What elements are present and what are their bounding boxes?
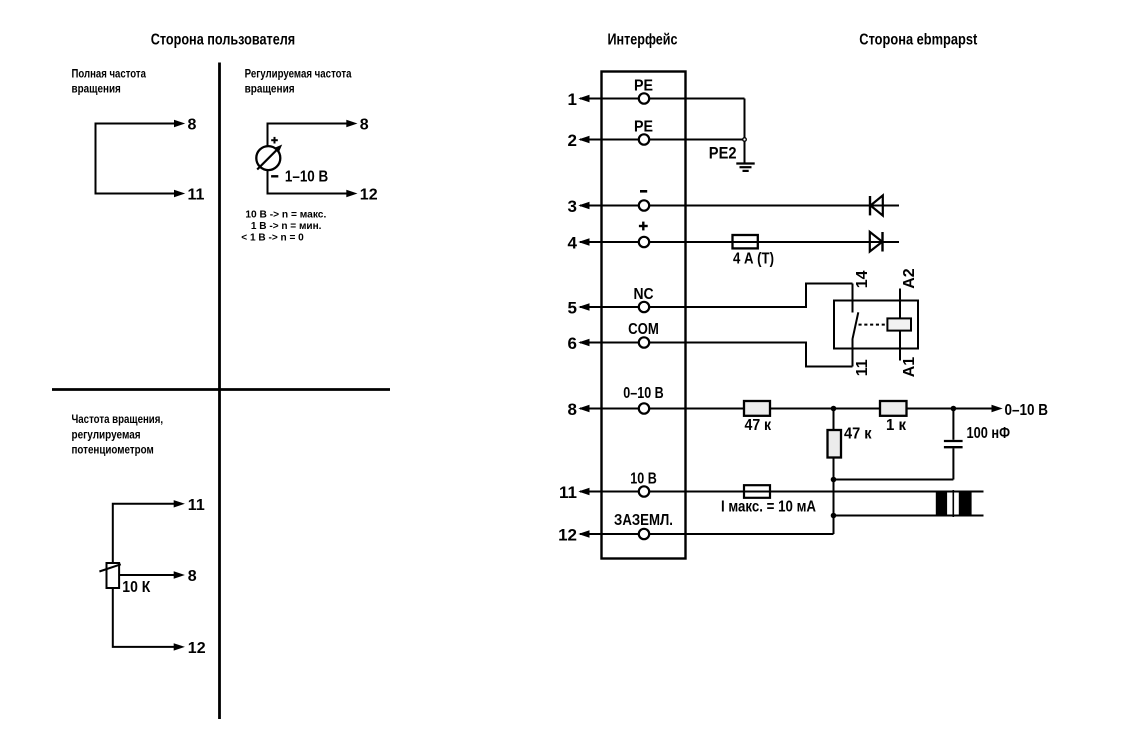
transformer isolation bars: [936, 491, 947, 517]
diode D2 row 4: [870, 232, 883, 252]
svg-text:Полная частота: Полная частота: [72, 66, 147, 80]
wire: full speed loop: [96, 124, 177, 194]
wire: source to 12: [268, 170, 349, 193]
divider horizontal: [52, 388, 390, 391]
svg-text:PE: PE: [634, 119, 653, 136]
capacitor C1 100nF: [952, 409, 954, 440]
svg-text:8: 8: [568, 400, 577, 419]
node 8 (pot): [174, 571, 185, 578]
wire: wiper to 8: [120, 574, 177, 576]
svg-text:5: 5: [568, 299, 577, 318]
terminal 2: [578, 136, 589, 143]
terminal 4: [578, 238, 589, 245]
relay contact stub 11: [852, 339, 854, 367]
wiper line: [99, 564, 120, 571]
junction node row8/bus: [831, 406, 837, 412]
voltage source V1: [256, 146, 280, 170]
svg-text:PE: PE: [634, 77, 653, 94]
terminal 6: [578, 339, 589, 346]
svg-text:Интерфейс: Интерфейс: [608, 32, 678, 49]
svg-text:12: 12: [558, 526, 577, 545]
node 11 (full speed): [174, 190, 185, 197]
wire row 11: [580, 491, 984, 493]
svg-text:3: 3: [568, 197, 577, 216]
svg-text:1 к: 1 к: [886, 417, 907, 434]
svg-text:10 В -> n = макс.: 10 В -> n = макс.: [245, 209, 326, 220]
svg-text:2: 2: [568, 131, 577, 150]
svg-text:Регулируемая частота: Регулируемая частота: [245, 66, 352, 80]
svg-text:100 нФ: 100 нФ: [967, 425, 1011, 442]
relay coil: [887, 318, 911, 330]
svg-text:COM: COM: [628, 321, 659, 338]
svg-text:1 В -> n = мин.: 1 В -> n = мин.: [251, 221, 322, 232]
junction PE2: [743, 138, 747, 142]
terminal 5: [578, 303, 589, 310]
fuse F1 4A: [733, 235, 758, 248]
wire row 4 plus: [580, 241, 899, 243]
svg-text:8: 8: [188, 117, 197, 134]
svg-text:I макс. = 10 мА: I макс. = 10 мА: [721, 499, 816, 516]
terminal 12: [578, 530, 589, 537]
node 12 (variable): [346, 190, 357, 197]
wire isolation lower: [834, 515, 984, 517]
relay blade: [853, 312, 859, 338]
terminal 8: [578, 405, 589, 412]
svg-text:A1: A1: [901, 357, 918, 378]
svg-text:6: 6: [568, 334, 577, 353]
node 11 (pot): [174, 500, 185, 507]
resistor R1 47k: [744, 401, 770, 416]
svg-text:10 К: 10 К: [122, 579, 150, 596]
relay contact stub 14: [852, 284, 854, 313]
wire bus x833 row8 to row12: [833, 409, 835, 535]
wiper arrow of source: [257, 149, 278, 170]
wire cap bottom to bus: [834, 479, 954, 481]
terminal 1: [578, 95, 589, 102]
wire PE bus down to ground: [744, 99, 746, 164]
svg-text:11: 11: [188, 187, 205, 204]
dashed actuator link: [859, 324, 887, 326]
coil lead A2: [899, 289, 901, 319]
node 8 (full speed): [174, 120, 185, 127]
svg-text:12: 12: [360, 187, 378, 204]
wire row 3 minus: [580, 205, 899, 207]
svg-text:Частота вращения,: Частота вращения,: [72, 412, 164, 426]
minus: [271, 175, 278, 177]
svg-text:0–10 В: 0–10 В: [623, 385, 663, 402]
junction node cap: [951, 406, 957, 412]
svg-text:11: 11: [854, 359, 871, 376]
node 12 (pot): [174, 643, 185, 650]
svg-text:11: 11: [559, 483, 577, 502]
wire row 1 PE: [580, 98, 745, 100]
svg-text:47 к: 47 к: [745, 417, 772, 434]
node 8 (variable): [346, 120, 357, 127]
svg-text:4: 4: [568, 234, 578, 253]
wire: source to 8: [268, 124, 349, 147]
wire row 8 output: [580, 408, 994, 410]
resistor R2 47k vertical: [828, 430, 842, 458]
resistor R3 1k: [880, 401, 907, 416]
wire row 2 PE: [580, 139, 745, 141]
coil lead A1: [899, 331, 901, 361]
svg-text:регулируемая: регулируемая: [72, 427, 141, 441]
junction node bus/isolation: [831, 513, 837, 519]
svg-text:1–10 В: 1–10 В: [285, 169, 328, 186]
terminal 3: [578, 202, 589, 209]
svg-text:47 к: 47 к: [844, 425, 872, 442]
svg-text:14: 14: [854, 270, 871, 288]
output arrow 0-10 V: [992, 405, 1003, 413]
svg-text:10 В: 10 В: [630, 471, 657, 488]
wire row 5 NC: [580, 284, 853, 308]
diode D1 row 3: [869, 196, 871, 215]
relay K1 box: [834, 301, 918, 349]
svg-text:Сторона ebmpapst: Сторона ebmpapst: [859, 32, 978, 49]
wire row 12: [580, 533, 834, 535]
svg-text:< 1 В -> n = 0: < 1 В -> n = 0: [241, 233, 304, 244]
svg-text:12: 12: [188, 640, 206, 657]
svg-text:PE2: PE2: [709, 144, 737, 163]
svg-text:11: 11: [188, 497, 205, 514]
divider vertical: [218, 63, 221, 720]
svg-text:8: 8: [188, 568, 197, 585]
svg-text:4 А (Т): 4 А (Т): [733, 251, 774, 268]
svg-text:ЗАЗЕМЛ.: ЗАЗЕМЛ.: [614, 512, 673, 529]
wire row 6 COM: [580, 343, 853, 367]
plus: [271, 139, 278, 141]
junction node bus/cap-return: [831, 477, 837, 483]
wire: pot loop: [113, 504, 176, 647]
svg-text:NC: NC: [633, 286, 653, 303]
ground PE2: [736, 162, 754, 164]
svg-text:потенциометром: потенциометром: [72, 443, 154, 457]
svg-text:0–10 В: 0–10 В: [1005, 402, 1049, 419]
svg-text:вращения: вращения: [245, 82, 295, 96]
svg-text:Сторона пользователя: Сторона пользователя: [151, 32, 296, 49]
svg-text:8: 8: [360, 117, 369, 134]
svg-text:A2: A2: [901, 268, 918, 289]
current limiter F2: [744, 485, 770, 498]
svg-text:вращения: вращения: [72, 82, 121, 96]
interface box: [602, 72, 686, 559]
svg-text:1: 1: [568, 90, 577, 109]
potentiometer R 10K: [107, 563, 120, 588]
terminal 11: [578, 488, 589, 495]
